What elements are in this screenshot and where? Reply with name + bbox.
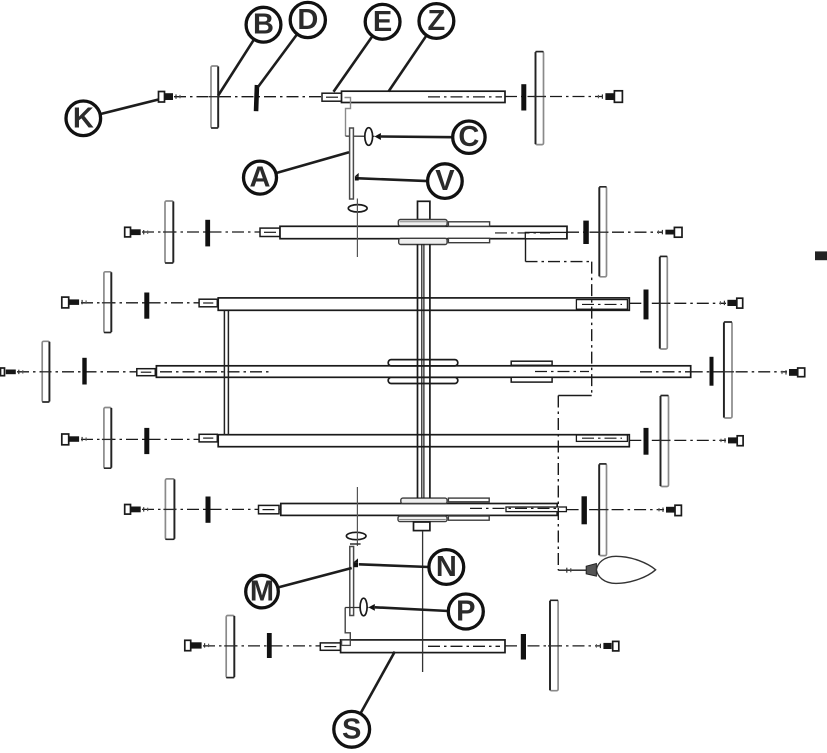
element tube row6 S (341, 640, 505, 653)
element tip plate row3 left (40, 341, 51, 402)
svg-text:E: E (373, 6, 392, 38)
element tip plate row1 left (163, 201, 175, 263)
retainer clip row4 right (644, 428, 649, 455)
sliding clamp row3 lower (511, 377, 552, 382)
leader line E (334, 36, 373, 92)
boom inner rod line 2 (423, 244, 425, 498)
leader line P (375, 607, 449, 611)
crop mark right edge (815, 251, 827, 260)
element tip plate row0 right (534, 52, 546, 145)
retainer clip row6 right (521, 634, 526, 660)
element tube row1 (280, 226, 567, 238)
screw row0 right (598, 91, 622, 103)
wire: row3 tube inner dash-dot mid (535, 371, 589, 373)
clamp plate row5 upper left (401, 498, 447, 503)
retainer clip row2 right (644, 290, 649, 320)
inner telescoping tube row5 (506, 507, 566, 512)
retainer clip row3 left (82, 358, 86, 385)
element tip plate row4 right (659, 396, 671, 487)
clamp plate row1 upper left (398, 220, 447, 226)
svg-text:D: D (297, 4, 318, 36)
element tip plate row4 left (102, 408, 113, 469)
wire: feed vertical upper (591, 262, 593, 396)
svg-text:Z: Z (428, 5, 446, 37)
vertical element A (350, 128, 354, 199)
screw row4 left (62, 434, 86, 445)
wire: row3 tube inner dash-dot right (640, 371, 690, 373)
hanger notch row6 (342, 640, 351, 645)
wire: row5 tube inner dash-dot (470, 507, 560, 509)
leader line A (276, 152, 349, 173)
element tube row5 (281, 504, 557, 516)
retainer clip row1 left (205, 220, 210, 247)
svg-text:K: K (73, 102, 94, 134)
wire: row4 left centerline (81, 438, 218, 440)
label circle C (453, 121, 485, 153)
screw row3 right (782, 368, 805, 377)
screw row1 right (658, 227, 682, 237)
wire: row1 left centerline (142, 231, 280, 233)
wire: row0 right centerline (505, 96, 603, 98)
screw row6 right (596, 641, 618, 651)
label circle M (246, 575, 279, 608)
leader line Z (389, 35, 427, 91)
svg-text:C: C (458, 121, 479, 153)
wire: boom-to-element hanger top (345, 98, 351, 137)
label circle E (365, 4, 400, 39)
element tip plate row2 right (658, 256, 670, 349)
wire: row0 tube inner dash-dot (428, 96, 502, 98)
label circle P (448, 594, 483, 629)
clamp plate row5 upper right (448, 498, 489, 502)
boom outer tube right line (429, 244, 431, 498)
retainer clip row0 right (521, 84, 526, 110)
element tip plate row1 right (597, 187, 608, 277)
clamp plate row1 upper right (448, 222, 489, 227)
element tip plate row6 right (548, 600, 560, 690)
svg-text:A: A (250, 162, 271, 194)
leader line N (359, 564, 429, 567)
wire: boom axis hairline (422, 531, 424, 672)
boom stub above row1 (418, 201, 430, 219)
wire: row6 left centerline (203, 645, 320, 647)
retainer clip row5 left (206, 497, 211, 523)
label circle Z (419, 4, 454, 39)
element tip plate row6 left (224, 616, 236, 678)
leader line M (278, 568, 352, 588)
wire: row3 left centerline (17, 371, 156, 373)
leader line V (359, 178, 428, 181)
coupler sleeve row4 (199, 434, 217, 442)
boom outer tube left line (417, 244, 419, 498)
label circle D (290, 2, 325, 37)
wire: boom-to-element hanger bottom (345, 608, 350, 641)
svg-text:B: B (253, 9, 274, 41)
element tip plate row5 right (597, 464, 608, 556)
coupler sleeve row3 (137, 369, 156, 376)
wire: left truss vertical 1 (223, 311, 225, 436)
inner telescoping tube row4 (576, 435, 627, 441)
boom stub below row5 (414, 522, 430, 531)
label circle V (428, 164, 463, 199)
clamp plate row3 lower (388, 377, 458, 383)
wire: oval axis bottom (345, 607, 368, 609)
clamp plate row1 lower right (448, 238, 489, 242)
wire: row3 tube inner dash-dot left (160, 371, 272, 373)
screw row4 right (721, 436, 743, 446)
inner telescoping tube row1 (525, 232, 566, 238)
label circle B (246, 7, 281, 42)
washer top (348, 205, 367, 212)
clamp screw N (354, 562, 358, 567)
svg-text:S: S (342, 713, 361, 745)
wire: row2 left centerline (81, 302, 218, 304)
screw row5 right (659, 505, 681, 515)
retainer clip row1 right (583, 221, 589, 244)
coupler sleeve row2 (199, 299, 217, 307)
inner telescoping tube row2 (576, 300, 627, 310)
wire: row1 right centerline (567, 231, 663, 233)
clamp plate row1 lower left (399, 238, 447, 244)
wire: row6 tube inner dash-dot (428, 645, 500, 647)
svg-text:M: M (250, 576, 274, 608)
leader line B (218, 40, 254, 96)
element tube row3 (156, 366, 690, 378)
sliding clamp row3 upper (511, 361, 552, 365)
wire: row2 right centerline (629, 302, 726, 304)
wire: row4 right centerline (629, 439, 726, 441)
clamp plate row5 lower right (448, 516, 489, 520)
clamp plate row3 upper (388, 360, 458, 366)
wire: feed vertical lower (557, 396, 559, 571)
retainer clip row4 left (144, 428, 149, 454)
wire: left truss vertical 2 (227, 311, 229, 436)
element tip plate B left (209, 66, 220, 128)
screw K (159, 92, 181, 103)
element tip plate row3 right (722, 322, 734, 418)
wire: feed to insulator (558, 569, 586, 571)
washer bottom (346, 532, 366, 539)
wire: oval axis top (346, 135, 375, 137)
element tube row2 (218, 298, 629, 310)
wire: row5 right centerline (567, 509, 664, 511)
label circle A (244, 161, 277, 194)
coupler sleeve E (322, 93, 342, 101)
svg-text:P: P (456, 596, 475, 628)
svg-text:N: N (436, 551, 457, 583)
element tube Z (342, 91, 506, 102)
screw row6 left (185, 640, 209, 650)
screw row2 left (62, 297, 86, 308)
label circle N (429, 550, 464, 585)
coupler sleeve row1 (260, 228, 280, 236)
screw row2 right (720, 298, 742, 308)
leader line K (100, 100, 158, 115)
svg-text:V: V (435, 165, 455, 197)
retainer clip row2 left (144, 293, 149, 319)
element tip plate row5 left (163, 479, 176, 539)
retainer clip row6 left (267, 633, 272, 658)
boom inner rod line 1 (421, 244, 423, 498)
screw row1 left (125, 227, 148, 237)
wire: feed horizontal upper (526, 261, 592, 263)
label circle S (334, 711, 370, 747)
wire: row5 left centerline (142, 508, 281, 510)
wire: axis hairline top (356, 199, 358, 258)
egg insulator bulb (596, 556, 655, 583)
leader line D (258, 34, 297, 87)
wire: feed tap from row1 tube (525, 238, 527, 262)
cap line below washer (350, 543, 361, 545)
wire: row0 left centerline (174, 96, 341, 98)
retainer clip D (254, 85, 260, 111)
wire: row6 right centerline (505, 645, 601, 647)
leader line C (381, 135, 453, 138)
retainer clip row5 right (582, 496, 587, 524)
element tube row4 (218, 435, 629, 447)
label circle K (66, 101, 101, 136)
leader line S (360, 652, 394, 714)
element tip plate row2 left (102, 272, 113, 333)
vertical element M (350, 547, 354, 616)
wire: axis hairline bottom (356, 487, 358, 546)
coupler sleeve row5 (259, 505, 280, 513)
socket of insulator (586, 564, 596, 577)
coupler sleeve row6 (320, 643, 340, 650)
screw row3 left (1, 368, 23, 376)
clamp plate row5 lower left (398, 516, 447, 522)
insulator oval P (360, 598, 367, 616)
wire: row3 right centerline (691, 371, 787, 373)
retainer clip row3 right (710, 357, 714, 386)
screw row5 left (125, 505, 148, 515)
clamp screw V (355, 176, 359, 180)
wire: feed step horizontal (558, 395, 591, 397)
insulator oval C (365, 128, 373, 146)
